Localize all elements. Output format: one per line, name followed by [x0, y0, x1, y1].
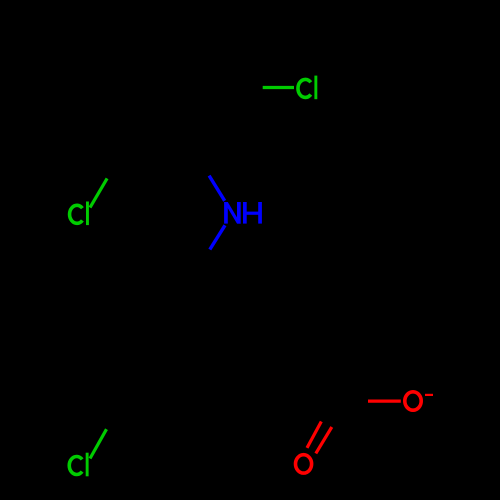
wire: carboxylate C=O double bond (oxygen halves, two parallel strokes)	[307, 422, 321, 448]
label Cl (bottom left chlorine)	[69, 453, 88, 477]
label O- (carboxylate oxygen)	[405, 392, 421, 410]
wire: bond stub C5-Cl (bottom left chlorine half)	[90, 429, 107, 458]
wire: bond stub C6-Cl (top right, chlorine half)	[263, 86, 294, 89]
label O (carbonyl oxygen)	[296, 455, 312, 473]
wire: bond stub N-C1' (upper, nitrogen half)	[209, 176, 225, 201]
label NH (secondary amine)	[224, 202, 262, 224]
label Cl (top right chlorine)	[298, 76, 317, 100]
label minus charge superscript	[425, 394, 433, 396]
wire: bond stub C2-Cl (left chlorine half)	[90, 178, 107, 207]
wire: bond stub N-C1 (lower, nitrogen half)	[210, 225, 225, 249]
label Cl (left chlorine)	[70, 202, 89, 226]
wire: bond stub C-O- (oxygen half, horizontal)	[368, 400, 401, 403]
